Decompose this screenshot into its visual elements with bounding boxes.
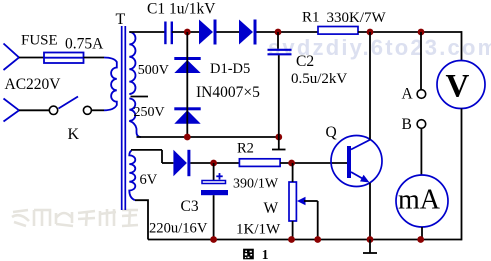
node junction dot (C2 top) <box>275 29 282 36</box>
wire: W bottom to rail <box>292 221 294 240</box>
svg-text:A: A <box>402 86 414 103</box>
wire: 6V winding top lead <box>131 149 162 151</box>
diode D2 (vertical, lower) <box>174 107 200 124</box>
wire: HV return (250V tap to ground node) <box>137 136 279 138</box>
wire: D3 to D4 <box>217 31 240 33</box>
transformer T secondary HV winding 500V section <box>129 32 135 94</box>
svg-text:1K/1W: 1K/1W <box>236 222 281 238</box>
svg-text:B: B <box>402 116 412 133</box>
capacitor C3 (electrolytic) <box>201 181 228 196</box>
wire: step to D5 <box>162 162 173 164</box>
svg-text:D1-D5: D1-D5 <box>210 61 250 77</box>
wire: emitter to bottom rail <box>369 183 371 240</box>
svg-text:220u/16V: 220u/16V <box>149 221 208 237</box>
potentiometer W body <box>289 182 296 221</box>
meter mA circle <box>396 175 448 227</box>
transistor Q collector stroke <box>351 140 371 150</box>
svg-text:390/1W: 390/1W <box>233 177 279 192</box>
transformer T primary winding <box>104 58 117 111</box>
capacitor C1 <box>165 22 171 45</box>
terminal B circle <box>417 120 426 129</box>
resistor R2 <box>239 159 280 167</box>
wire: D4 to R1 (top rail) <box>257 31 319 33</box>
wire: C1 to D3 <box>172 31 199 33</box>
node junction dot (Q collector) <box>367 29 374 36</box>
svg-text:250V: 250V <box>134 105 165 120</box>
wire: V meter down right side to bottom rail <box>461 109 463 241</box>
potentiometer W wiper arrow <box>297 197 318 205</box>
svg-text:330K/7W: 330K/7W <box>327 10 387 26</box>
node junction dot (C2 bottom / ground) <box>275 134 282 141</box>
wire: mA meter to bottom rail <box>421 227 423 240</box>
node junction dot (wiper return) <box>314 236 321 243</box>
svg-text:C1 1u/1kV: C1 1u/1kV <box>147 1 216 18</box>
wire: C2 bottom to ground node <box>278 55 280 137</box>
wire: top rail right corner down to V meter <box>461 31 463 60</box>
wire: HV mid tap stub <box>131 96 149 98</box>
svg-text:K: K <box>68 126 80 143</box>
wire: wiper to rail <box>317 201 319 240</box>
wire: transformer top to C1 <box>129 31 165 33</box>
transistor Q circle <box>331 136 382 187</box>
svg-text:AC220V: AC220V <box>5 76 62 93</box>
wire: C3 bottom lead <box>213 195 215 239</box>
terminal arrow bottom (line input) <box>4 99 20 122</box>
ground (main) <box>363 240 377 254</box>
node junction dot (C3 top) <box>210 160 217 167</box>
node junction dot (terminal A) <box>418 29 425 36</box>
diode D1 (vertical, upper) <box>174 57 200 73</box>
svg-text:R2: R2 <box>237 141 254 157</box>
wire: switch to transformer primary bottom <box>91 109 104 111</box>
wire: D5 to R2 <box>190 162 239 164</box>
wire: top rail to terminal A <box>420 32 422 90</box>
node junction dot (R2 / W / base) <box>288 160 295 167</box>
caption figure 1 <box>243 247 269 261</box>
wire: 6V winding bottom lead <box>135 200 148 239</box>
svg-text:IN4007×5: IN4007×5 <box>196 84 260 101</box>
wire: R2 to base node <box>280 162 347 164</box>
transistor Q emitter stroke with arrow <box>351 172 370 183</box>
node junction dot (C1 / D1 chain) <box>184 29 191 36</box>
svg-text:6V: 6V <box>140 172 158 188</box>
svg-text:T: T <box>116 11 126 28</box>
resistor R1 <box>318 27 358 35</box>
transistor Q base bar <box>347 146 351 178</box>
switch K <box>49 97 91 115</box>
wire: bottom rail <box>148 239 462 241</box>
wire: collector to top rail <box>369 32 371 140</box>
terminal arrow top (line input) <box>4 44 20 71</box>
wire: fuse to transformer primary top <box>84 57 105 59</box>
svg-text:mA: mA <box>398 185 441 216</box>
svg-text:1: 1 <box>262 247 269 261</box>
terminal A circle <box>417 90 426 99</box>
fuse F1 <box>44 53 84 64</box>
transformer T core <box>122 26 126 210</box>
diode D3 (top rail, first) <box>199 20 217 45</box>
svg-text:C3: C3 <box>181 198 199 215</box>
node junction dot (emitter / ground) <box>367 236 374 243</box>
diode D4 (top rail, second) <box>239 20 257 45</box>
capacitor C2 <box>268 50 292 55</box>
svg-text:0.75A: 0.75A <box>65 36 104 53</box>
node junction dot (W bottom) <box>288 236 295 243</box>
svg-text:0.5u/2kV: 0.5u/2kV <box>291 71 347 87</box>
watermark bottom left <box>12 209 138 226</box>
node junction dot (C3 bottom) <box>210 236 217 243</box>
node junction dot (mA return) <box>417 236 424 243</box>
svg-text:FUSE: FUSE <box>21 33 58 49</box>
wire: C3 top lead <box>213 163 215 181</box>
transformer T secondary 6V winding <box>129 151 135 201</box>
wire: R1 to top right corner <box>358 31 462 33</box>
svg-text:V: V <box>446 69 470 105</box>
svg-text:C2: C2 <box>296 53 314 70</box>
svg-text:R1: R1 <box>302 10 320 26</box>
svg-text:Q: Q <box>326 124 337 141</box>
diode D5 (6V rectifier) <box>173 150 190 176</box>
wire: top rail to C2 <box>277 32 279 49</box>
svg-text:500V: 500V <box>138 63 169 78</box>
wire: 6V lead step down <box>161 150 163 163</box>
wire: vertical diode chain <box>186 32 188 137</box>
ground (HV return) <box>272 137 286 150</box>
svg-text:W: W <box>264 200 279 217</box>
wire: bottom arrow to switch <box>19 109 49 111</box>
capacitor C3 polarity + <box>216 173 222 179</box>
wire: top arrow to fuse <box>19 57 44 59</box>
meter V circle <box>437 61 485 109</box>
node junction dot (diode chain bottom) <box>184 134 191 141</box>
wire: base node to W top <box>292 163 294 182</box>
wire: terminal B to mA meter <box>420 128 422 175</box>
transformer T secondary HV winding 250V section <box>129 99 141 138</box>
